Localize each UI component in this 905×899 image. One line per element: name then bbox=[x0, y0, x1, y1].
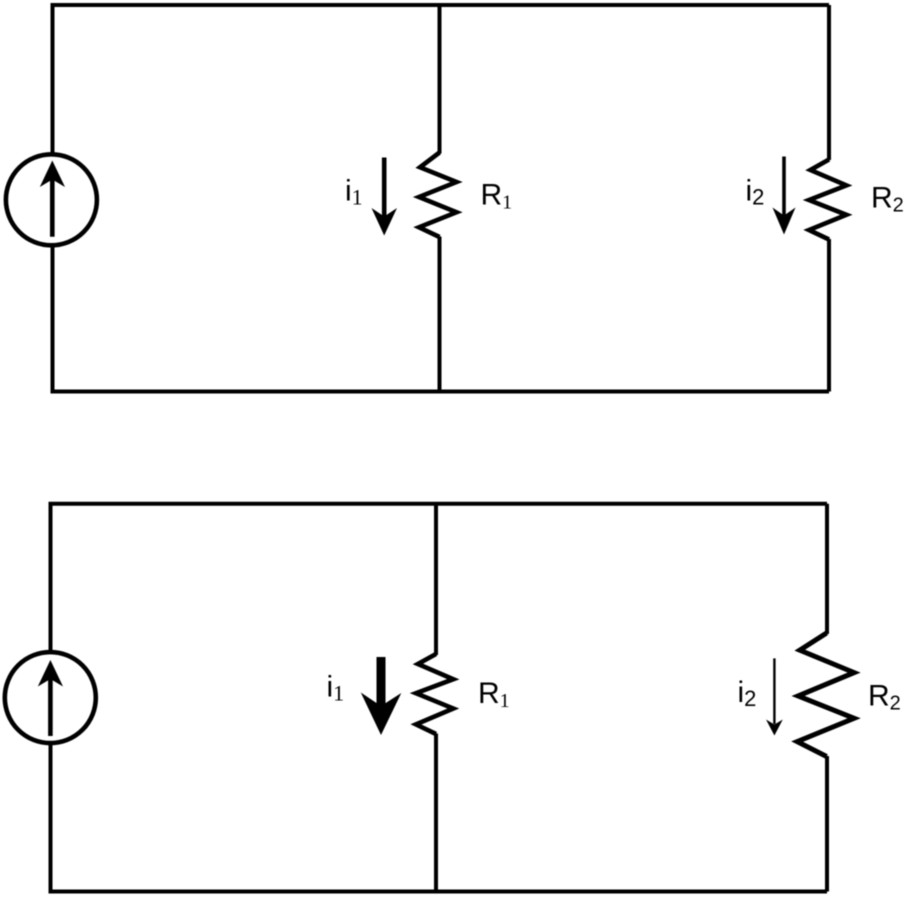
svg-text:i1: i1 bbox=[327, 671, 345, 706]
svg-text:R2: R2 bbox=[868, 679, 901, 714]
current arrow i2 (top circuit) bbox=[773, 157, 796, 235]
resistor R1 (bottom circuit) bbox=[416, 654, 453, 734]
svg-text:i2: i2 bbox=[746, 175, 765, 210]
wire: bottom circuit outer loop (top, left, bottom edges) bbox=[51, 504, 828, 892]
wire: top circuit outer loop (top, left, bottom edges) bbox=[53, 5, 830, 392]
wire: top circuit middle branch upper segment bbox=[438, 5, 442, 154]
wire: top circuit middle branch lower segment bbox=[438, 237, 442, 392]
wire: bottom circuit right edge lower segment bbox=[825, 756, 829, 892]
current arrow i1 (top circuit) bbox=[372, 158, 398, 236]
resistor R2 (top circuit) bbox=[809, 160, 846, 240]
thick current arrow i1 (bottom circuit) bbox=[361, 657, 402, 735]
wire: top circuit right edge lower segment bbox=[827, 239, 831, 392]
svg-text:R2: R2 bbox=[871, 181, 904, 216]
resistor R2 (bottom circuit) bbox=[797, 633, 854, 757]
wire: bottom circuit right edge upper segment bbox=[825, 504, 829, 634]
current source I (top) arrow bbox=[40, 161, 65, 237]
svg-text:R1: R1 bbox=[481, 178, 513, 213]
svg-text:R1: R1 bbox=[478, 677, 510, 712]
wire: top circuit right edge upper segment bbox=[827, 5, 831, 160]
current source I (bottom circuit) bbox=[5, 652, 96, 743]
svg-text:i2: i2 bbox=[738, 676, 757, 711]
resistor R1 (top circuit) bbox=[419, 153, 457, 238]
current source I (top circuit) bbox=[6, 154, 97, 245]
svg-text:i1: i1 bbox=[345, 175, 363, 210]
wire: bottom circuit middle branch upper segment bbox=[434, 504, 438, 655]
thin current arrow i2 (bottom circuit) bbox=[766, 658, 783, 735]
current source I (bottom) arrow bbox=[38, 660, 63, 736]
wire: bottom circuit middle branch lower segment bbox=[434, 734, 438, 892]
